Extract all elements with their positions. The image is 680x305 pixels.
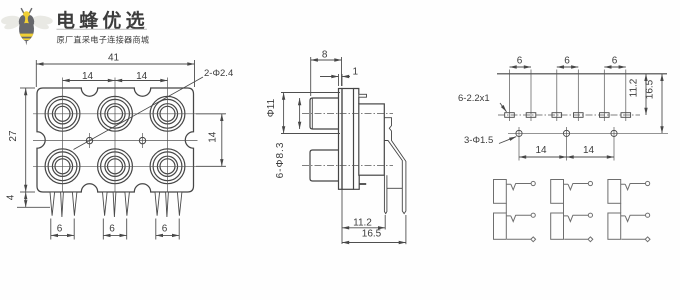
- svg-text:6: 6: [564, 56, 570, 67]
- svg-text:2-Φ2.4: 2-Φ2.4: [204, 68, 233, 79]
- svg-text:6: 6: [109, 224, 115, 235]
- svg-text:1: 1: [353, 67, 359, 78]
- svg-text:8: 8: [322, 50, 328, 61]
- svg-text:14: 14: [208, 131, 219, 143]
- svg-text:27: 27: [8, 130, 19, 142]
- svg-text:14: 14: [535, 145, 547, 156]
- svg-text:14: 14: [583, 145, 595, 156]
- svg-text:6: 6: [162, 224, 168, 235]
- svg-text:6-Φ8.3: 6-Φ8.3: [275, 142, 286, 179]
- svg-text:14: 14: [136, 71, 148, 82]
- svg-text:6: 6: [57, 224, 63, 235]
- svg-text:电蜂优选: 电蜂优选: [56, 9, 149, 32]
- svg-text:41: 41: [108, 53, 120, 64]
- svg-text:3-Φ1.5: 3-Φ1.5: [464, 135, 493, 146]
- svg-text:6: 6: [517, 56, 523, 67]
- svg-text:11.2: 11.2: [629, 78, 640, 97]
- svg-text:Φ11: Φ11: [266, 98, 277, 117]
- svg-text:原厂直采电子连接器商城: 原厂直采电子连接器商城: [57, 35, 150, 45]
- svg-text:4: 4: [6, 194, 17, 200]
- svg-text:16.5: 16.5: [645, 79, 656, 99]
- svg-text:6: 6: [612, 56, 618, 67]
- svg-text:14: 14: [82, 71, 94, 82]
- svg-text:6-2.2x1: 6-2.2x1: [458, 93, 490, 104]
- svg-text:16.5: 16.5: [362, 229, 382, 240]
- svg-text:11.2: 11.2: [353, 218, 372, 229]
